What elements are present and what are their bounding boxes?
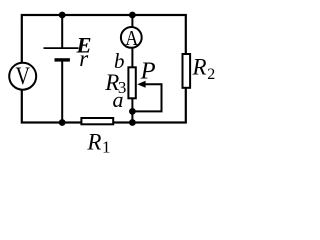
svg-text:V: V — [16, 63, 31, 90]
svg-text:3: 3 — [118, 78, 127, 97]
svg-text:1: 1 — [102, 137, 111, 156]
svg-text:R: R — [192, 54, 207, 79]
svg-text:r: r — [79, 46, 89, 71]
svg-text:2: 2 — [207, 66, 215, 83]
svg-text:P: P — [140, 58, 156, 85]
svg-text:A: A — [125, 26, 138, 50]
svg-text:R: R — [86, 129, 101, 154]
